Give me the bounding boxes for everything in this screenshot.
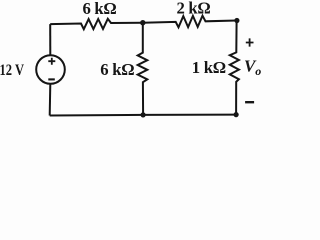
- svg-text:1 kΩ: 1 kΩ: [192, 58, 226, 77]
- svg-text:o: o: [255, 64, 261, 78]
- svg-text:12 V: 12 V: [0, 62, 24, 79]
- svg-text:6 kΩ: 6 kΩ: [83, 0, 117, 18]
- svg-text:6 kΩ: 6 kΩ: [100, 60, 134, 79]
- svg-text:2 kΩ: 2 kΩ: [177, 0, 211, 17]
